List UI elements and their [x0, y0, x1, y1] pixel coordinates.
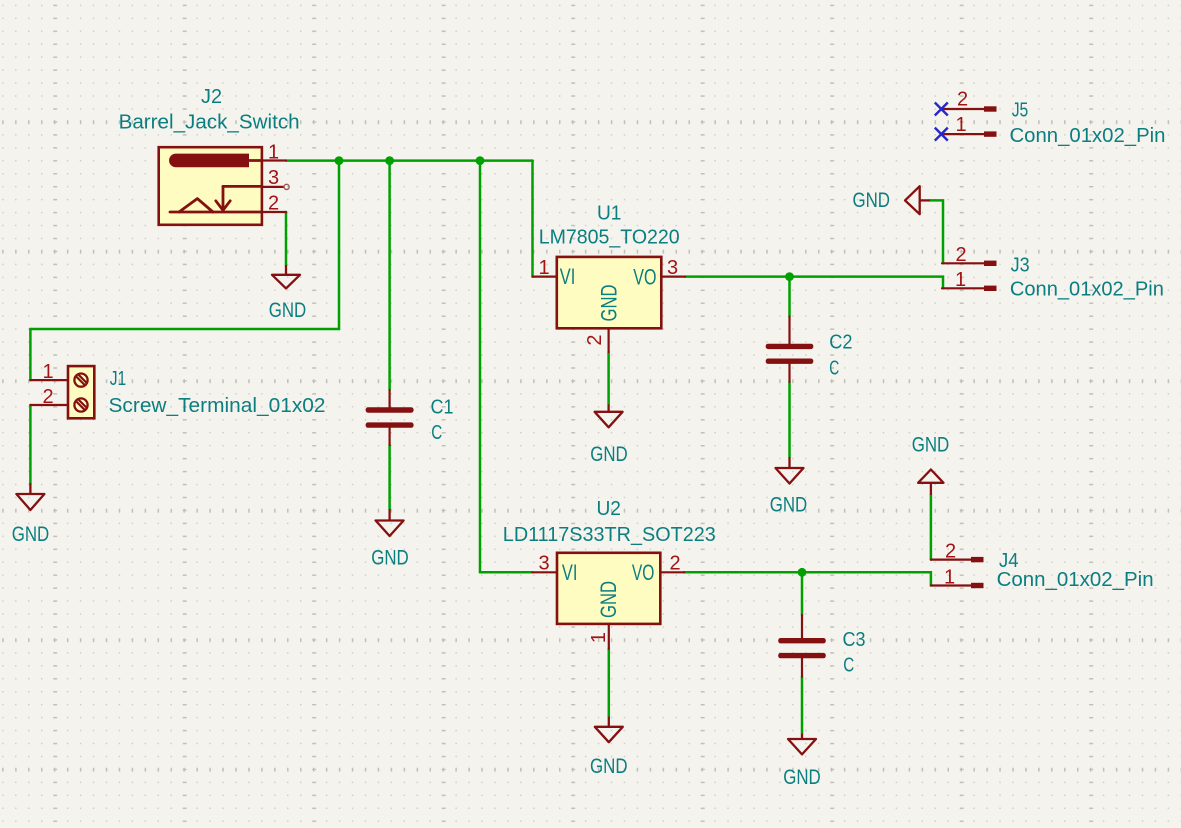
- wire VIN branch down at x339: [338, 161, 341, 329]
- svg-text:1: 1: [944, 566, 955, 588]
- wire C2 top: [788, 277, 791, 317]
- svg-text:VI: VI: [560, 264, 576, 289]
- wire C1 bottom to GND: [388, 445, 391, 509]
- wire VIN horizontal to J1: [30, 328, 339, 331]
- svg-text:Screw_Terminal_01x02: Screw_Terminal_01x02: [109, 395, 326, 417]
- svg-text:C3: C3: [843, 629, 866, 651]
- svg-text:GND: GND: [269, 299, 307, 322]
- svg-text:GND: GND: [590, 443, 628, 466]
- svg-text:C2: C2: [829, 332, 852, 354]
- regulator U2 body: [557, 553, 660, 624]
- wire GND to J3 pin2: [930, 200, 943, 263]
- svg-text:LD1117S33TR_SOT223: LD1117S33TR_SOT223: [503, 524, 716, 546]
- svg-text:GND: GND: [590, 755, 628, 778]
- svg-text:2: 2: [955, 244, 966, 266]
- capacitor C2: [766, 317, 814, 382]
- svg-text:Barrel_Jack_Switch: Barrel_Jack_Switch: [119, 112, 300, 134]
- svg-text:GND: GND: [597, 285, 622, 322]
- pin 1 of U1: [533, 276, 557, 278]
- wire J2 pin2 to GND: [285, 212, 288, 265]
- wire GND to J4 pin2: [930, 495, 933, 560]
- connector J5 pins: [942, 106, 997, 136]
- svg-text:GND: GND: [770, 494, 808, 517]
- svg-text:GND: GND: [912, 433, 950, 456]
- svg-text:U2: U2: [596, 498, 621, 520]
- svg-text:2: 2: [957, 88, 968, 110]
- svg-text:2: 2: [945, 540, 956, 562]
- svg-text:GND: GND: [853, 189, 891, 212]
- junction +5V at C2: [785, 272, 794, 281]
- svg-text:J2: J2: [201, 86, 222, 108]
- wire C3 top: [801, 572, 804, 615]
- svg-text:GND: GND: [596, 581, 621, 618]
- junction VIN at x480: [476, 156, 485, 165]
- connector J2 body: [159, 147, 262, 225]
- svg-text:3: 3: [268, 167, 279, 189]
- svg-text:Conn_01x02_Pin: Conn_01x02_Pin: [997, 569, 1154, 591]
- svg-text:2: 2: [42, 386, 53, 408]
- svg-text:1: 1: [42, 361, 53, 383]
- svg-text:GND: GND: [12, 523, 50, 546]
- wire U1 VO to J3 pin1: [685, 277, 943, 289]
- svg-text:U1: U1: [597, 202, 622, 224]
- ground symbol at C3: [788, 734, 816, 755]
- pin 1 of U2: [608, 624, 610, 649]
- svg-text:1: 1: [955, 269, 966, 291]
- svg-text:C: C: [843, 655, 854, 677]
- svg-text:J5: J5: [1012, 99, 1029, 121]
- wire VIN rail from J2 pin1: [286, 159, 533, 162]
- pin 3 of J2: [262, 184, 289, 189]
- svg-text:LM7805_TO220: LM7805_TO220: [539, 226, 680, 248]
- wire U2 GND pin to GND: [608, 649, 611, 717]
- svg-text:GND: GND: [371, 547, 409, 570]
- pin 2 of U2: [660, 571, 684, 573]
- ground symbol at U1: [595, 404, 623, 427]
- svg-text:1: 1: [955, 114, 966, 136]
- no-connect flag at J5 pin1: [935, 128, 948, 141]
- capacitor C3: [778, 615, 826, 677]
- pin 2 of J1: [30, 404, 68, 406]
- ground symbol at J1 pin2: [16, 483, 44, 510]
- svg-text:GND: GND: [783, 766, 821, 789]
- wire U2 VO to J4 pin1: [684, 572, 931, 585]
- wire VIN branch down to C1: [388, 161, 391, 390]
- svg-text:Conn_01x02_Pin: Conn_01x02_Pin: [1010, 278, 1164, 300]
- no-connect flag at J5 pin2: [935, 103, 948, 116]
- wire VIN down to J1 pin1: [29, 329, 32, 380]
- svg-text:VO: VO: [632, 560, 655, 585]
- capacitor C1: [366, 390, 414, 445]
- ground symbol up-pointing near J4: [918, 470, 943, 495]
- junction VIN at x389: [385, 156, 394, 165]
- svg-text:Conn_01x02_Pin: Conn_01x02_Pin: [1010, 125, 1166, 147]
- connector J3 pins: [942, 261, 997, 291]
- pin 1 of J2: [262, 159, 286, 161]
- ground symbol at C1: [376, 509, 404, 536]
- ground symbol at U2: [595, 717, 623, 743]
- wire VIN down to U1 VI: [531, 161, 534, 277]
- wire to U2 VI: [480, 571, 533, 574]
- junction +3V3 at C3: [798, 568, 807, 577]
- svg-text:2: 2: [268, 193, 279, 215]
- junction VIN at x339: [335, 156, 344, 165]
- pin 3 of U2: [533, 571, 558, 573]
- wire U1 GND pin to GND: [607, 352, 610, 404]
- ground symbol at C2: [776, 457, 804, 484]
- svg-text:3: 3: [667, 257, 678, 279]
- svg-text:C: C: [431, 422, 442, 444]
- svg-text:J3: J3: [1011, 254, 1030, 276]
- pin 1 of J1: [30, 379, 68, 381]
- pin 3 of U1: [661, 276, 685, 278]
- wire C3 bottom to GND: [801, 677, 804, 734]
- svg-text:1: 1: [268, 141, 279, 163]
- ground symbol left-pointing near J3: [905, 186, 930, 214]
- wire VIN branch down at x480: [479, 161, 482, 573]
- svg-text:3: 3: [538, 553, 549, 575]
- svg-text:2: 2: [584, 334, 606, 345]
- svg-text:C1: C1: [431, 397, 454, 419]
- svg-text:1: 1: [588, 632, 610, 643]
- svg-text:VI: VI: [562, 560, 578, 585]
- wire J1 pin2 to GND: [29, 405, 32, 483]
- svg-text:VO: VO: [633, 264, 656, 289]
- regulator U1 body: [557, 257, 662, 328]
- wire C2 bottom to GND: [788, 382, 791, 457]
- svg-text:J1: J1: [110, 368, 127, 390]
- pin 2 of U1: [607, 328, 609, 352]
- svg-text:1: 1: [538, 257, 549, 279]
- pin 2 of J2: [262, 211, 286, 213]
- connector J1 body: [68, 366, 94, 418]
- svg-text:2: 2: [669, 553, 680, 575]
- connector J4 pins: [931, 557, 984, 588]
- svg-text:C: C: [829, 357, 839, 379]
- ground symbol at J2 pin2: [272, 265, 300, 288]
